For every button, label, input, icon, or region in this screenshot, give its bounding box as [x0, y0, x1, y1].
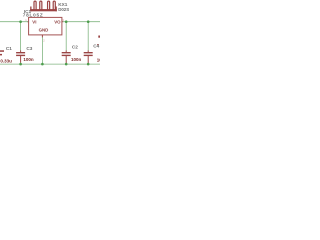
svg-text:2: 2	[43, 39, 45, 43]
svg-text:C2: C2	[72, 45, 78, 50]
svg-text:C4: C4	[93, 44, 99, 49]
svg-text:0.33u: 0.33u	[0, 58, 12, 63]
svg-text:C3: C3	[26, 46, 32, 51]
svg-text:GND: GND	[39, 27, 49, 32]
svg-text:78L05Z: 78L05Z	[23, 13, 44, 18]
svg-text:100n: 100n	[23, 57, 34, 62]
svg-text:C1: C1	[6, 46, 12, 51]
svg-text:D02S: D02S	[58, 7, 69, 12]
svg-text:VO: VO	[54, 20, 61, 25]
svg-text:VI: VI	[32, 20, 36, 25]
svg-text:100n: 100n	[71, 57, 82, 62]
svg-text:100n: 100n	[97, 57, 100, 62]
